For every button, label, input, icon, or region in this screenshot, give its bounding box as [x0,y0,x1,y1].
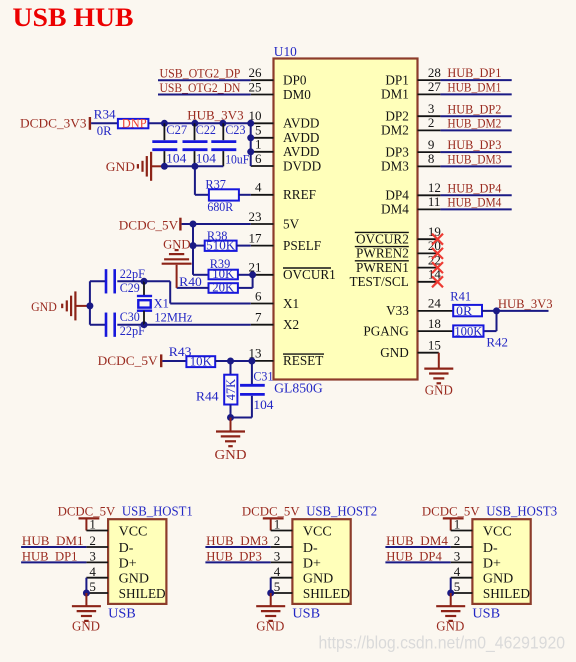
svg-text:HUB_DP3: HUB_DP3 [447,137,501,152]
svg-text:5: 5 [454,579,461,594]
svg-text:3: 3 [274,549,281,564]
wire USB_HOST1 pin 4 to pin 5 gnd [85,578,87,593]
wire DCDC_3V3 to R34 [91,122,118,124]
wire DCDC_5V to R43 [162,360,186,362]
svg-text:DCDC_3V3: DCDC_3V3 [20,115,87,130]
svg-text:104: 104 [166,151,187,166]
svg-text:510K: 510K [206,237,236,252]
svg-text:USB_OTG2_DN: USB_OTG2_DN [160,80,241,95]
wire HUB_DP4 [440,194,511,196]
USB_HOST2 pin 2 D- [271,546,293,548]
svg-text:HUB_DM3: HUB_DM3 [206,533,268,548]
junction at C23 top [219,120,226,127]
wire HUB_DM4 [440,208,511,210]
wire R41 to HUB_3V3 [482,310,549,312]
svg-text:9: 9 [428,137,435,152]
svg-text:DM1: DM1 [381,87,409,102]
svg-text:GND: GND [31,299,57,314]
U10 pin 3 DP2 [418,115,441,117]
svg-text:C22: C22 [196,122,216,137]
svg-text:VCC: VCC [303,524,332,539]
svg-text:4: 4 [454,564,461,579]
svg-text:AVDD: AVDD [283,130,319,145]
svg-text:1: 1 [274,517,281,532]
wire OVCUR1 node down to R40 [252,275,254,288]
U10 pin 5 AVDD [251,137,274,139]
svg-text:4: 4 [274,564,281,579]
wire cap ground rail [164,165,223,167]
svg-text:D+: D+ [483,556,501,571]
wire HUB_DM2 [440,129,511,131]
svg-text:USB: USB [292,606,320,621]
U10 pin 1 AVDD [251,151,274,153]
svg-text:U10: U10 [274,44,297,59]
USB_HOST1 pin 4 GND [86,577,108,579]
IC U10 body [274,59,418,380]
wire HUB_DP3 [440,151,511,153]
svg-text:7: 7 [255,310,262,325]
wire crystal left bus [89,281,91,324]
wire C30 right to X2 node [117,324,144,326]
svg-text:GND: GND [256,619,284,634]
svg-text:0R: 0R [456,303,472,318]
U10 pin 2 DM2 [418,129,441,131]
svg-text:DM2: DM2 [381,123,409,138]
svg-text:C31: C31 [253,368,273,383]
svg-text:HUB_DP1: HUB_DP1 [447,65,501,80]
svg-text:100K: 100K [454,323,483,338]
USB_HOST3 pin 4 GND [451,577,473,579]
svg-text:D-: D- [303,541,318,556]
USB_HOST2 pin 1 VCC [271,530,293,532]
svg-text:USB HUB: USB HUB [13,2,134,32]
svg-text:DM0: DM0 [283,87,311,102]
svg-text:10K: 10K [190,354,213,369]
ground symbol USB_HOST1 [85,593,87,606]
U10 pin 20 PWREN2 [418,252,438,254]
USB_HOST2 pin 5 SHILED [271,592,293,594]
U10 pin 15 GND [418,352,439,354]
USB_HOST3 pin 1 VCC [451,530,473,532]
connector USB_HOST3 body [472,519,530,604]
USB_HOST2 pin 3 D+ [271,561,293,563]
svg-text:D+: D+ [119,556,137,571]
U10 pin 28 DP1 [418,79,441,81]
wire USB_OTG2_DP to pin 26 [158,79,251,81]
no-ERC marker pin 19 [432,234,443,245]
svg-text:GND: GND [425,382,453,397]
wire C29 left [90,280,106,282]
svg-text:SHILED: SHILED [119,587,166,602]
svg-text:27: 27 [428,79,442,94]
wire C30 left [90,324,106,326]
junction at C22 top [191,120,198,127]
svg-text:47K: 47K [224,379,238,401]
no-ERC marker pin 22 [432,262,443,273]
svg-text:11: 11 [428,194,441,209]
wire HUB_DM3 to USB_HOST2 pin 2 [205,546,270,548]
svg-text:23: 23 [249,209,262,224]
svg-text:DM3: DM3 [381,159,409,174]
svg-text:USB_HOST1: USB_HOST1 [122,504,193,519]
svg-text:3: 3 [428,101,435,116]
U10 pin 27 DM1 [418,93,441,95]
svg-text:0R: 0R [97,123,112,138]
svg-text:1: 1 [89,517,96,532]
svg-text:680R: 680R [207,199,233,214]
wire to R39 [193,274,209,276]
resistor R42 100K [453,325,483,336]
svg-text:3: 3 [454,549,461,564]
junction USB_HOST2 gnd [267,590,274,597]
USB_HOST1 pin 2 D- [86,546,108,548]
USB_HOST1 pin 1 VCC [86,530,108,532]
U10 pin 12 DP4 [418,194,441,196]
svg-text:6: 6 [255,151,262,166]
crystal X1 12MHz [143,281,145,296]
wire DCDC_5V down to dividers [192,224,194,275]
svg-text:DNP: DNP [122,116,147,130]
svg-text:DM4: DM4 [381,202,409,217]
svg-text:5V: 5V [283,216,300,231]
USB_HOST2 pin 4 GND [271,577,293,579]
svg-text:DP2: DP2 [385,109,408,124]
junction at R44 top [227,358,234,365]
svg-text:USB_HOST2: USB_HOST2 [306,504,377,519]
svg-text:R44: R44 [196,389,219,404]
svg-text:OVCUR1: OVCUR1 [283,267,336,282]
svg-text:USB: USB [108,606,136,621]
junction USB_HOST3 gnd [447,590,454,597]
U10 pin 23 5V [251,223,274,225]
svg-text:RREF: RREF [283,187,316,202]
wire R34 to HUB_3V3 rail [148,122,250,124]
wire HUB_DM1 to USB_HOST1 pin 2 [21,546,86,548]
svg-text:D-: D- [119,541,134,556]
U10 pin 25 DM0 [251,94,274,96]
svg-text:2: 2 [274,533,281,548]
svg-text:15: 15 [428,338,441,353]
svg-text:DP1: DP1 [385,72,408,87]
U10 pin 24 V33 [418,310,454,312]
wire HUB_DM4 to USB_HOST3 pin 2 [385,546,450,548]
svg-text:5: 5 [89,579,96,594]
U10 pin 6 X1 [251,303,274,305]
wire HUB_DM3 [440,165,511,167]
svg-text:DP3: DP3 [385,144,409,159]
svg-text:AVDD: AVDD [283,144,319,159]
wire HUB_DP1 [440,79,511,81]
svg-text:GND: GND [215,447,247,462]
svg-text:HUB_DP2: HUB_DP2 [447,101,501,116]
U10 pin 8 DM3 [418,165,441,167]
U10 pin 18 PGANG [418,330,454,332]
svg-text:GND: GND [106,159,135,174]
svg-text:D+: D+ [303,556,321,571]
junction at C31 top [248,358,255,365]
wire HUB_3V3 node down to R42 [496,311,498,331]
svg-text:24: 24 [428,296,442,311]
connector USB_HOST1 body [108,519,166,604]
svg-text:AVDD: AVDD [283,116,319,131]
svg-text:25: 25 [249,79,262,94]
U10 pin 19 OVCUR2 [418,238,438,240]
wire HUB_DP1 to USB_HOST1 pin 3 [21,561,86,563]
svg-text:26: 26 [249,65,263,80]
svg-text:DP0: DP0 [283,73,307,88]
wire R39 to OVCUR1 node [238,274,251,276]
svg-text:SHILED: SHILED [483,587,530,602]
junction crystal gnd [86,302,93,309]
svg-text:HUB_DM3: HUB_DM3 [447,152,501,167]
USB_HOST1 pin 5 SHILED [86,592,108,594]
USB_HOST3 pin 3 D+ [451,561,473,563]
U10 pin 4 RREF [251,194,274,196]
svg-text:GND: GND [72,619,100,634]
svg-text:HUB_DM1: HUB_DM1 [22,533,84,548]
svg-text:20K: 20K [212,279,235,294]
U10 pin 21 OVCUR1 [251,274,274,276]
wire R40 to ground [177,287,209,289]
wire C22 gnd to R37 [194,166,196,195]
svg-text:104: 104 [196,151,217,166]
connector USB_HOST2 body [292,519,350,604]
svg-text:C27: C27 [166,122,187,137]
wire X2 node to pin 7 X2 [144,324,251,326]
wire HUB_DM1 [440,93,511,95]
svg-text:https://blog.csdn.net/m0_46291: https://blog.csdn.net/m0_46291920 [319,633,566,654]
ground symbol USB_HOST2 [270,593,272,606]
svg-text:PWREN2: PWREN2 [356,246,409,261]
U10 pin 13 RESET [251,360,274,362]
svg-text:1: 1 [454,517,461,532]
svg-text:2: 2 [428,115,435,130]
svg-text:4: 4 [255,180,262,195]
svg-text:28: 28 [428,65,441,80]
svg-text:DCDC_5V: DCDC_5V [58,503,116,518]
svg-text:104: 104 [253,397,274,412]
svg-text:17: 17 [249,230,263,245]
svg-text:USB: USB [472,606,500,621]
wire HUB_DP2 [440,115,511,117]
junction DCDC_5V node [190,221,197,228]
svg-text:2: 2 [89,533,96,548]
svg-text:R34: R34 [94,107,116,122]
svg-text:GND: GND [380,345,409,360]
svg-text:DCDC_5V: DCDC_5V [98,353,159,368]
svg-text:X1: X1 [154,295,169,310]
U10 pin 17 PSELF [251,245,274,247]
U10 pin 10 AVDD [251,122,274,124]
wire to R38 [193,245,205,247]
svg-text:GND: GND [119,572,149,587]
svg-text:HUB_DM4: HUB_DM4 [447,195,501,210]
svg-text:HUB_DM1: HUB_DM1 [447,80,501,95]
junction R44 bottom [227,414,234,421]
svg-text:8: 8 [428,151,435,166]
svg-text:PGANG: PGANG [363,323,409,338]
svg-text:GL850G: GL850G [274,381,323,396]
U10 pin 22 PWREN1 [418,267,438,269]
svg-text:DCDC_5V: DCDC_5V [119,218,179,233]
svg-text:GND: GND [483,572,513,587]
svg-text:2: 2 [454,533,461,548]
junction at AVDD pins vertical [247,120,254,127]
junction at R38 [190,242,197,249]
svg-text:R41: R41 [450,289,471,304]
USB_HOST3 pin 5 SHILED [451,592,473,594]
svg-text:C23: C23 [225,122,245,137]
svg-text:VCC: VCC [483,524,512,539]
wire HUB_DP3 to USB_HOST2 pin 3 [205,561,270,563]
svg-text:DCDC_5V: DCDC_5V [242,503,300,518]
svg-text:HUB_DM4: HUB_DM4 [386,533,448,548]
svg-text:5: 5 [274,579,281,594]
junction USB_HOST1 gnd [83,590,90,597]
svg-text:V33: V33 [386,303,409,318]
svg-text:OVCUR2: OVCUR2 [356,232,409,247]
wire HUB_DP4 to USB_HOST3 pin 3 [385,561,450,563]
junction X2 node [141,321,148,328]
junction OVCUR1 node [249,271,256,278]
wire R43 to pin 13 RESET [215,360,251,362]
svg-text:X1: X1 [283,296,299,311]
svg-text:SHILED: SHILED [303,587,350,602]
no-ERC marker pin 20 [432,248,443,259]
wire R38 to pin 17 [237,245,251,247]
svg-text:DP4: DP4 [385,188,409,203]
svg-text:10uF: 10uF [225,151,249,166]
svg-text:TEST/SCL: TEST/SCL [349,274,408,289]
svg-text:22pF: 22pF [120,266,145,281]
svg-text:4: 4 [89,564,96,579]
wire USB_HOST2 pin 4 to pin 5 gnd [270,578,272,593]
no-ERC marker pin 14 [432,276,443,287]
svg-text:PSELF: PSELF [283,238,321,253]
svg-text:X2: X2 [283,317,299,332]
wire AVDD pins vertical [250,123,252,166]
svg-text:DCDC_5V: DCDC_5V [422,503,480,518]
U10 pin 14 TEST/SCL [418,281,438,283]
svg-text:HUB_DM2: HUB_DM2 [447,116,501,131]
ground symbol USB_HOST3 [450,593,452,606]
svg-text:GND: GND [436,619,464,634]
ground symbol at pin 15 [438,353,440,369]
svg-text:D-: D- [483,541,498,556]
wire C31 to R44 bottom node [231,417,252,419]
svg-text:12: 12 [428,180,441,195]
USB_HOST1 pin 3 D+ [86,561,108,563]
svg-text:HUB_DP4: HUB_DP4 [447,180,501,195]
svg-text:12MHz: 12MHz [154,309,192,324]
svg-text:USB_HOST3: USB_HOST3 [486,504,557,519]
svg-text:6: 6 [255,288,262,303]
ground symbol below R44 [230,418,232,432]
wire DCDC_5V to pin 23 [182,223,251,225]
wire C29 right to X1 node [117,280,144,282]
svg-text:18: 18 [428,316,441,331]
svg-text:VCC: VCC [119,524,148,539]
junction at C27 top [161,120,168,127]
wire USB_HOST3 pin 4 to pin 5 gnd [450,578,452,593]
U10 pin 11 DM4 [418,208,441,210]
svg-text:RESET: RESET [283,353,323,368]
svg-text:5: 5 [255,123,262,138]
U10 pin 9 DP3 [418,151,441,153]
U10 pin 6 DVDD [251,165,274,167]
svg-text:R40: R40 [179,274,202,289]
U10 pin 26 DP0 [251,79,274,81]
wire USB_OTG2_DN to pin 25 [158,94,251,96]
svg-text:HUB_3V3: HUB_3V3 [498,296,553,311]
svg-text:GND: GND [303,572,333,587]
svg-text:DVDD: DVDD [283,158,321,173]
svg-text:PWREN1: PWREN1 [356,260,409,275]
svg-text:C30: C30 [120,309,140,324]
svg-text:3: 3 [89,549,96,564]
junction X1 top [141,278,148,285]
svg-text:1: 1 [255,137,262,152]
junction HUB_3V3 node [493,307,500,314]
wire X1 node to pin 6 X1 [144,280,170,282]
svg-text:R42: R42 [486,334,508,349]
U10 pin 7 X2 [251,324,274,326]
USB_HOST3 pin 2 D- [451,546,473,548]
svg-text:USB_OTG2_DP: USB_OTG2_DP [160,66,241,81]
wire R37 to pin 4 [239,194,251,196]
